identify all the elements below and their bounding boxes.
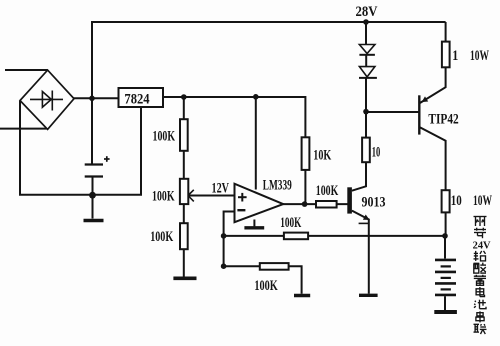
svg-text:12V: 12V bbox=[212, 181, 230, 197]
wire bridge output to 7824 input bbox=[74, 97, 119, 99]
svg-text:100K: 100K bbox=[254, 278, 278, 294]
wire emitter to ground bbox=[368, 220, 370, 294]
ground below R3 bbox=[173, 276, 196, 280]
resistor R3 100K bbox=[180, 223, 188, 249]
resistor R1 100K bbox=[180, 119, 188, 151]
vertical Chinese note: hand-drawn glyphs bbox=[473, 217, 491, 335]
wire pot to R3 bbox=[183, 204, 185, 223]
wire AC input bottom bbox=[0, 128, 47, 130]
resistor Rc 10 bbox=[362, 138, 370, 163]
ground below Rg bbox=[294, 294, 310, 297]
node 24V rail 1 bbox=[181, 94, 187, 100]
transistor Q2 collector bbox=[352, 162, 366, 191]
svg-text:100K: 100K bbox=[150, 229, 173, 245]
transistor Q2 emitter bbox=[352, 211, 370, 220]
wire inverting input bbox=[224, 212, 235, 267]
resistor 10K pullup bbox=[302, 137, 310, 170]
wire Rs to battery node bbox=[445, 212, 447, 236]
potentiometer RP 100K bbox=[180, 179, 188, 204]
glyph 两 bbox=[474, 217, 487, 227]
battery BT1 plates bbox=[435, 260, 456, 295]
diode D1 bbox=[365, 22, 367, 45]
op-amp U1 LM339 triangle bbox=[235, 184, 284, 223]
ground below op-amp bbox=[253, 220, 255, 227]
ground below 9013 emitter bbox=[359, 294, 378, 297]
svg-text:10: 10 bbox=[372, 145, 381, 161]
svg-text:7824: 7824 bbox=[124, 92, 150, 108]
wire left vertical from rail to cap bbox=[91, 21, 93, 165]
node cap negative bbox=[89, 192, 96, 199]
svg-text:9013: 9013 bbox=[362, 195, 386, 211]
wire R3 to ground bbox=[183, 249, 185, 277]
node lower divider bbox=[221, 263, 227, 269]
glyph 蓄 bbox=[474, 275, 486, 286]
node 28V rail bbox=[363, 19, 369, 25]
wire supply drop to op-amp bbox=[255, 97, 257, 190]
glyph 串 bbox=[476, 311, 484, 322]
glyph 联 bbox=[474, 324, 487, 334]
battery bottom terminal bbox=[444, 296, 446, 310]
resistor Rb 100K base bbox=[316, 201, 337, 208]
op-amp plus sign bbox=[238, 196, 247, 198]
wire R1 to pot bbox=[183, 151, 185, 179]
transistor Q1 collector bbox=[419, 127, 445, 190]
bridge rectifier body bbox=[20, 70, 74, 129]
svg-text:10: 10 bbox=[451, 193, 462, 209]
wire top rail 28V bbox=[91, 21, 446, 23]
potentiometer wiper arrow bbox=[188, 190, 194, 202]
wire D2 to node bbox=[365, 78, 367, 112]
svg-text:24V: 24V bbox=[473, 240, 491, 251]
wire cap bottom lead bbox=[92, 177, 94, 196]
svg-text:TIP42: TIP42 bbox=[428, 112, 458, 128]
wire battery top lead bbox=[444, 236, 446, 259]
wire Re to rail bbox=[445, 22, 447, 42]
svg-text:10W: 10W bbox=[473, 193, 492, 209]
svg-text:1: 1 bbox=[452, 48, 458, 64]
glyph 节 bbox=[474, 228, 486, 239]
svg-text:28V: 28V bbox=[356, 4, 378, 20]
svg-text:100K: 100K bbox=[280, 215, 301, 231]
wire op-amp output bbox=[283, 203, 349, 205]
wire lower divider bbox=[224, 265, 260, 267]
node diode bottom bbox=[363, 109, 369, 115]
node inverting input bbox=[221, 233, 227, 239]
ground below cap bbox=[92, 195, 94, 219]
wire node to R1 bbox=[183, 97, 185, 119]
wire node to TIP42 base bbox=[366, 111, 419, 113]
resistor Rf 100K feedback bbox=[284, 233, 308, 240]
wire D1 to D2 bbox=[365, 55, 367, 67]
op-amp minus sign bbox=[237, 209, 245, 211]
svg-text:100K: 100K bbox=[316, 183, 339, 199]
capacitor C1 plates bbox=[85, 165, 103, 177]
svg-text:10K: 10K bbox=[313, 148, 331, 164]
wire wiper to op-amp plus input bbox=[189, 195, 235, 197]
node 7824 input bbox=[89, 96, 95, 102]
svg-text:LM339: LM339 bbox=[263, 178, 292, 194]
resistor Rg 100K to ground bbox=[260, 263, 289, 270]
regulator U2 7824 box bbox=[119, 88, 164, 107]
node battery positive bbox=[442, 233, 448, 239]
svg-text:100K: 100K bbox=[153, 128, 176, 144]
wire bridge negative to gnd rail bbox=[20, 101, 141, 195]
wire 7824 output rail bbox=[163, 97, 305, 137]
glyph 电 bbox=[476, 287, 484, 297]
wire Rg to ground bbox=[289, 266, 302, 294]
node op-amp output bbox=[302, 201, 308, 207]
glyph 酸 bbox=[474, 263, 487, 274]
svg-text:100K: 100K bbox=[152, 189, 175, 205]
resistor Rs 10 10W bbox=[442, 190, 450, 212]
wire Rc top to diode node bbox=[365, 111, 367, 137]
transistor Q1 TIP42 base bar bbox=[418, 95, 420, 134]
wire 10K to output node bbox=[304, 170, 306, 204]
glyph 铅 bbox=[474, 251, 486, 261]
capacitor plus sign bbox=[104, 156, 110, 162]
glyph 池 bbox=[474, 300, 486, 309]
transistor Q1 emitter bbox=[419, 67, 445, 103]
node 24V rail 2 bbox=[253, 94, 259, 100]
svg-text:10W: 10W bbox=[470, 48, 489, 64]
bridge internal diode bbox=[30, 91, 63, 111]
wire AC input top bbox=[5, 69, 48, 71]
wire feedback to battery bbox=[224, 235, 445, 237]
transistor Q2 9013 base bar bbox=[347, 187, 352, 213]
diode D2 bbox=[359, 67, 377, 78]
resistor Re 1 10W bbox=[442, 42, 450, 68]
